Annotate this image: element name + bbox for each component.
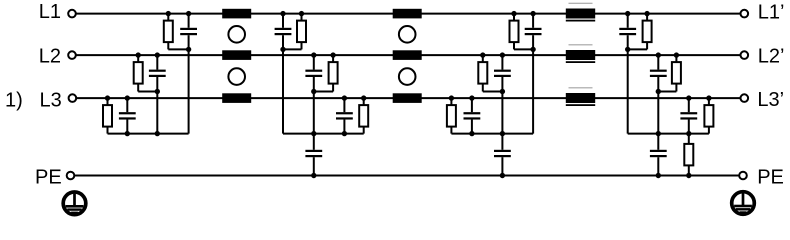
capacitor CY2 (stage 3 star to PE) [494,134,511,176]
capacitor C6 (stage 2, L3 to star) [336,98,353,134]
resistor R5 (stage 2, L2 to star) [329,55,338,91]
wire star rail stage 3 [451,133,533,135]
junction dot stage 3 L2 line at R top [480,52,485,57]
capacitor C4 (stage 2, L1 to star) [275,14,292,50]
junction dot stage 3 rail / L3 cap [469,131,474,136]
junction dot stage 2 PE cap on PE line [311,173,316,178]
capacitor C3 (stage 1, L3 to star) [119,98,136,134]
wire drop stage 3 L2 junction to rail [501,92,503,134]
svg-text:1): 1) [5,89,23,111]
terminal L2' right [741,51,749,59]
terminal PE right [739,172,747,180]
junction dot stage 2 L1 line at C top [280,11,285,16]
wire junction stage 4 L2 group [658,91,676,93]
svg-text:L2: L2 [39,45,61,67]
junction dot stage 1 L1 RC node [186,47,191,52]
wire junction stage 1 L1 group [168,48,188,50]
resistor R10 (stage 4, L1 to star) [643,14,652,50]
junction dot stage 2 rail / L3 cap [342,131,347,136]
junction dot stage 2 L2 line at R top [330,52,335,57]
wire drop stage 3 L1 junction to rail [532,49,534,133]
junction dot stage 3 L2 line at C top [500,52,505,57]
junction dot stage 1 L1 line at C top [186,11,191,16]
wire drop stage 2 L1 junction to rail [282,49,284,133]
wire star rail stage 4 [628,133,709,135]
wire junction stage 2 L1 group [283,48,302,50]
junction dot stage 2 L1 line at R top [299,11,304,16]
wire junction stage 2 L2 group [314,91,333,93]
capacitor C9 (stage 3, L3 to star) [464,98,481,134]
resistor R1 (stage 1, L1 to star) [164,14,173,50]
svg-text:L3’: L3’ [757,89,784,111]
junction dot stage 1 L3 line at R top [105,95,110,100]
wire L3 line [76,97,740,99]
junction dot stage 1 rail / L2 drop [155,131,160,136]
junction dot stage 3 L3 line at C top [469,95,474,100]
wire drop stage 4 L1 junction to rail [627,49,629,133]
junction dot stage 3 rail / L2 drop [500,131,505,136]
terminal L1 left [68,10,76,18]
core circle CH2 lower [399,68,416,85]
junction dot stage 2 rail / L2 drop [311,131,316,136]
capacitor C1 (stage 1, L1 to star) [180,14,197,50]
wire star rail stage 2 [283,133,364,135]
junction dot stage 2 L2 RC node [311,89,316,94]
capacitor C5 (stage 2, L2 to star) [305,55,322,91]
junction dot stage 3 L3 line at R top [449,95,454,100]
wire junction stage 3 L2 group [483,91,503,93]
junction dot stage 1 L3 line at C top [125,95,130,100]
svg-text:L3: L3 [40,89,62,111]
resistor R2 (stage 1, L2 to star) [134,55,143,91]
inductor choke CH3b (L2 winding) [566,44,595,63]
resistor R9 (stage 3, L3 to star) [447,98,456,134]
junction dot stage 4 L3 line at R top [706,95,711,100]
terminal L3 left [69,94,77,102]
resistor R6 (stage 2, L3 to star) [359,98,368,134]
junction dot stage 4 L2 line at C top [656,52,661,57]
inductor choke CH1b (L2 winding) [222,50,251,60]
wire drop stage 1 L2 junction to rail [156,92,158,134]
capacitor CY1 (stage 2 star to PE) [305,134,322,176]
wire junction stage 1 L2 group [138,91,157,93]
inductor choke CH3c (L3 winding) [566,87,595,106]
svg-text:PE: PE [757,166,784,188]
junction dot stage 4 L2 line at R top [674,52,679,57]
inductor choke CH1c (L3 winding) [222,93,251,103]
inductor choke CH2b (L2 winding) [393,50,422,60]
svg-text:L1: L1 [39,1,61,23]
resistor R7 (stage 3, L1 to star) [510,14,519,50]
terminal L3' right [741,94,749,102]
junction dot stage 2 L3 line at C top [342,95,347,100]
junction dot stage 3 L2 RC node [500,89,505,94]
inductor choke CH2a (L1 winding) [393,9,422,19]
core circle CH1 upper [228,26,245,43]
junction dot stage 1 L1 line at R top [166,11,171,16]
junction dot stage 2 L1 RC node [280,47,285,52]
capacitor C10 (stage 4, L1 to star) [619,14,636,50]
wire L2 line [76,54,740,56]
capacitor C2 (stage 1, L2 to star) [149,55,166,91]
junction dot stage 4 PE resistor on PE line [686,173,691,178]
capacitor C12 (stage 4, L3 to star) [680,98,697,134]
capacitor C11 (stage 4, L2 to star) [650,55,667,91]
protective earth symbol right [732,192,755,215]
junction dot stage 3 L1 line at R top [511,11,516,16]
junction dot stage 1 L2 RC node [155,89,160,94]
junction dot stage 3 PE cap on PE line [500,173,505,178]
terminal L1' right [741,10,749,18]
junction dot stage 4 L2 RC node [656,89,661,94]
junction dot stage 4 rail / L2 drop [656,131,661,136]
resistor R8 (stage 3, L2 to star) [478,55,487,91]
junction dot stage 3 L1 RC node [530,47,535,52]
protective earth symbol left [63,192,86,215]
junction dot stage 4 L1 RC node [625,47,630,52]
terminal PE left [67,172,75,180]
junction dot stage 4 L3 line at C top [686,95,691,100]
core circle CH2 upper [399,26,416,43]
svg-text:PE: PE [35,166,62,188]
junction dot stage 3 L1 line at C top [530,11,535,16]
junction dot stage 4 PE cap on PE line [656,173,661,178]
inductor choke CH2c (L3 winding) [393,93,422,103]
wire junction stage 4 L1 group [628,48,647,50]
resistor R11 (stage 4, L2 to star) [672,55,681,91]
inductor choke CH1a (L1 winding) [222,9,251,19]
wire PE line [75,175,739,177]
junction dot stage 4 rail / L3 cap [686,131,691,136]
junction dot stage 2 L3 line at R top [361,95,366,100]
resistor R4 (stage 2, L1 to star) [297,14,306,50]
resistor R12 (stage 4, L3 to star) [704,98,713,134]
svg-text:L2’: L2’ [758,45,785,67]
junction dot stage 4 L1 line at C top [625,11,630,16]
capacitor CY3 (stage 4 star to PE) [650,134,667,176]
wire drop stage 2 L2 junction to rail [313,92,315,134]
wire L1 line [76,13,740,15]
wire junction stage 3 L1 group [514,48,533,50]
junction dot stage 1 L2 line at R top [136,52,141,57]
junction dot stage 4 L1 line at R top [644,11,649,16]
inductor choke CH3a (L1 winding) [566,3,595,22]
wire drop stage 4 L2 junction to rail [657,92,659,134]
core circle CH1 lower [228,68,245,85]
capacitor C7 (stage 3, L1 to star) [525,14,542,50]
svg-text:L1’: L1’ [758,2,785,24]
resistor RB1 (stage 4 star to PE discharge) [684,134,693,176]
terminal L2 left [68,51,76,59]
capacitor C8 (stage 3, L2 to star) [494,55,511,91]
wire drop stage 1 L1 junction to rail [188,49,190,133]
resistor R3 (stage 1, L3 to star) [103,98,112,134]
junction dot stage 1 rail / L3 cap [125,131,130,136]
junction dot stage 2 L2 line at C top [311,52,316,57]
junction dot stage 1 L2 line at C top [155,52,160,57]
wire star rail stage 1 [108,133,189,135]
